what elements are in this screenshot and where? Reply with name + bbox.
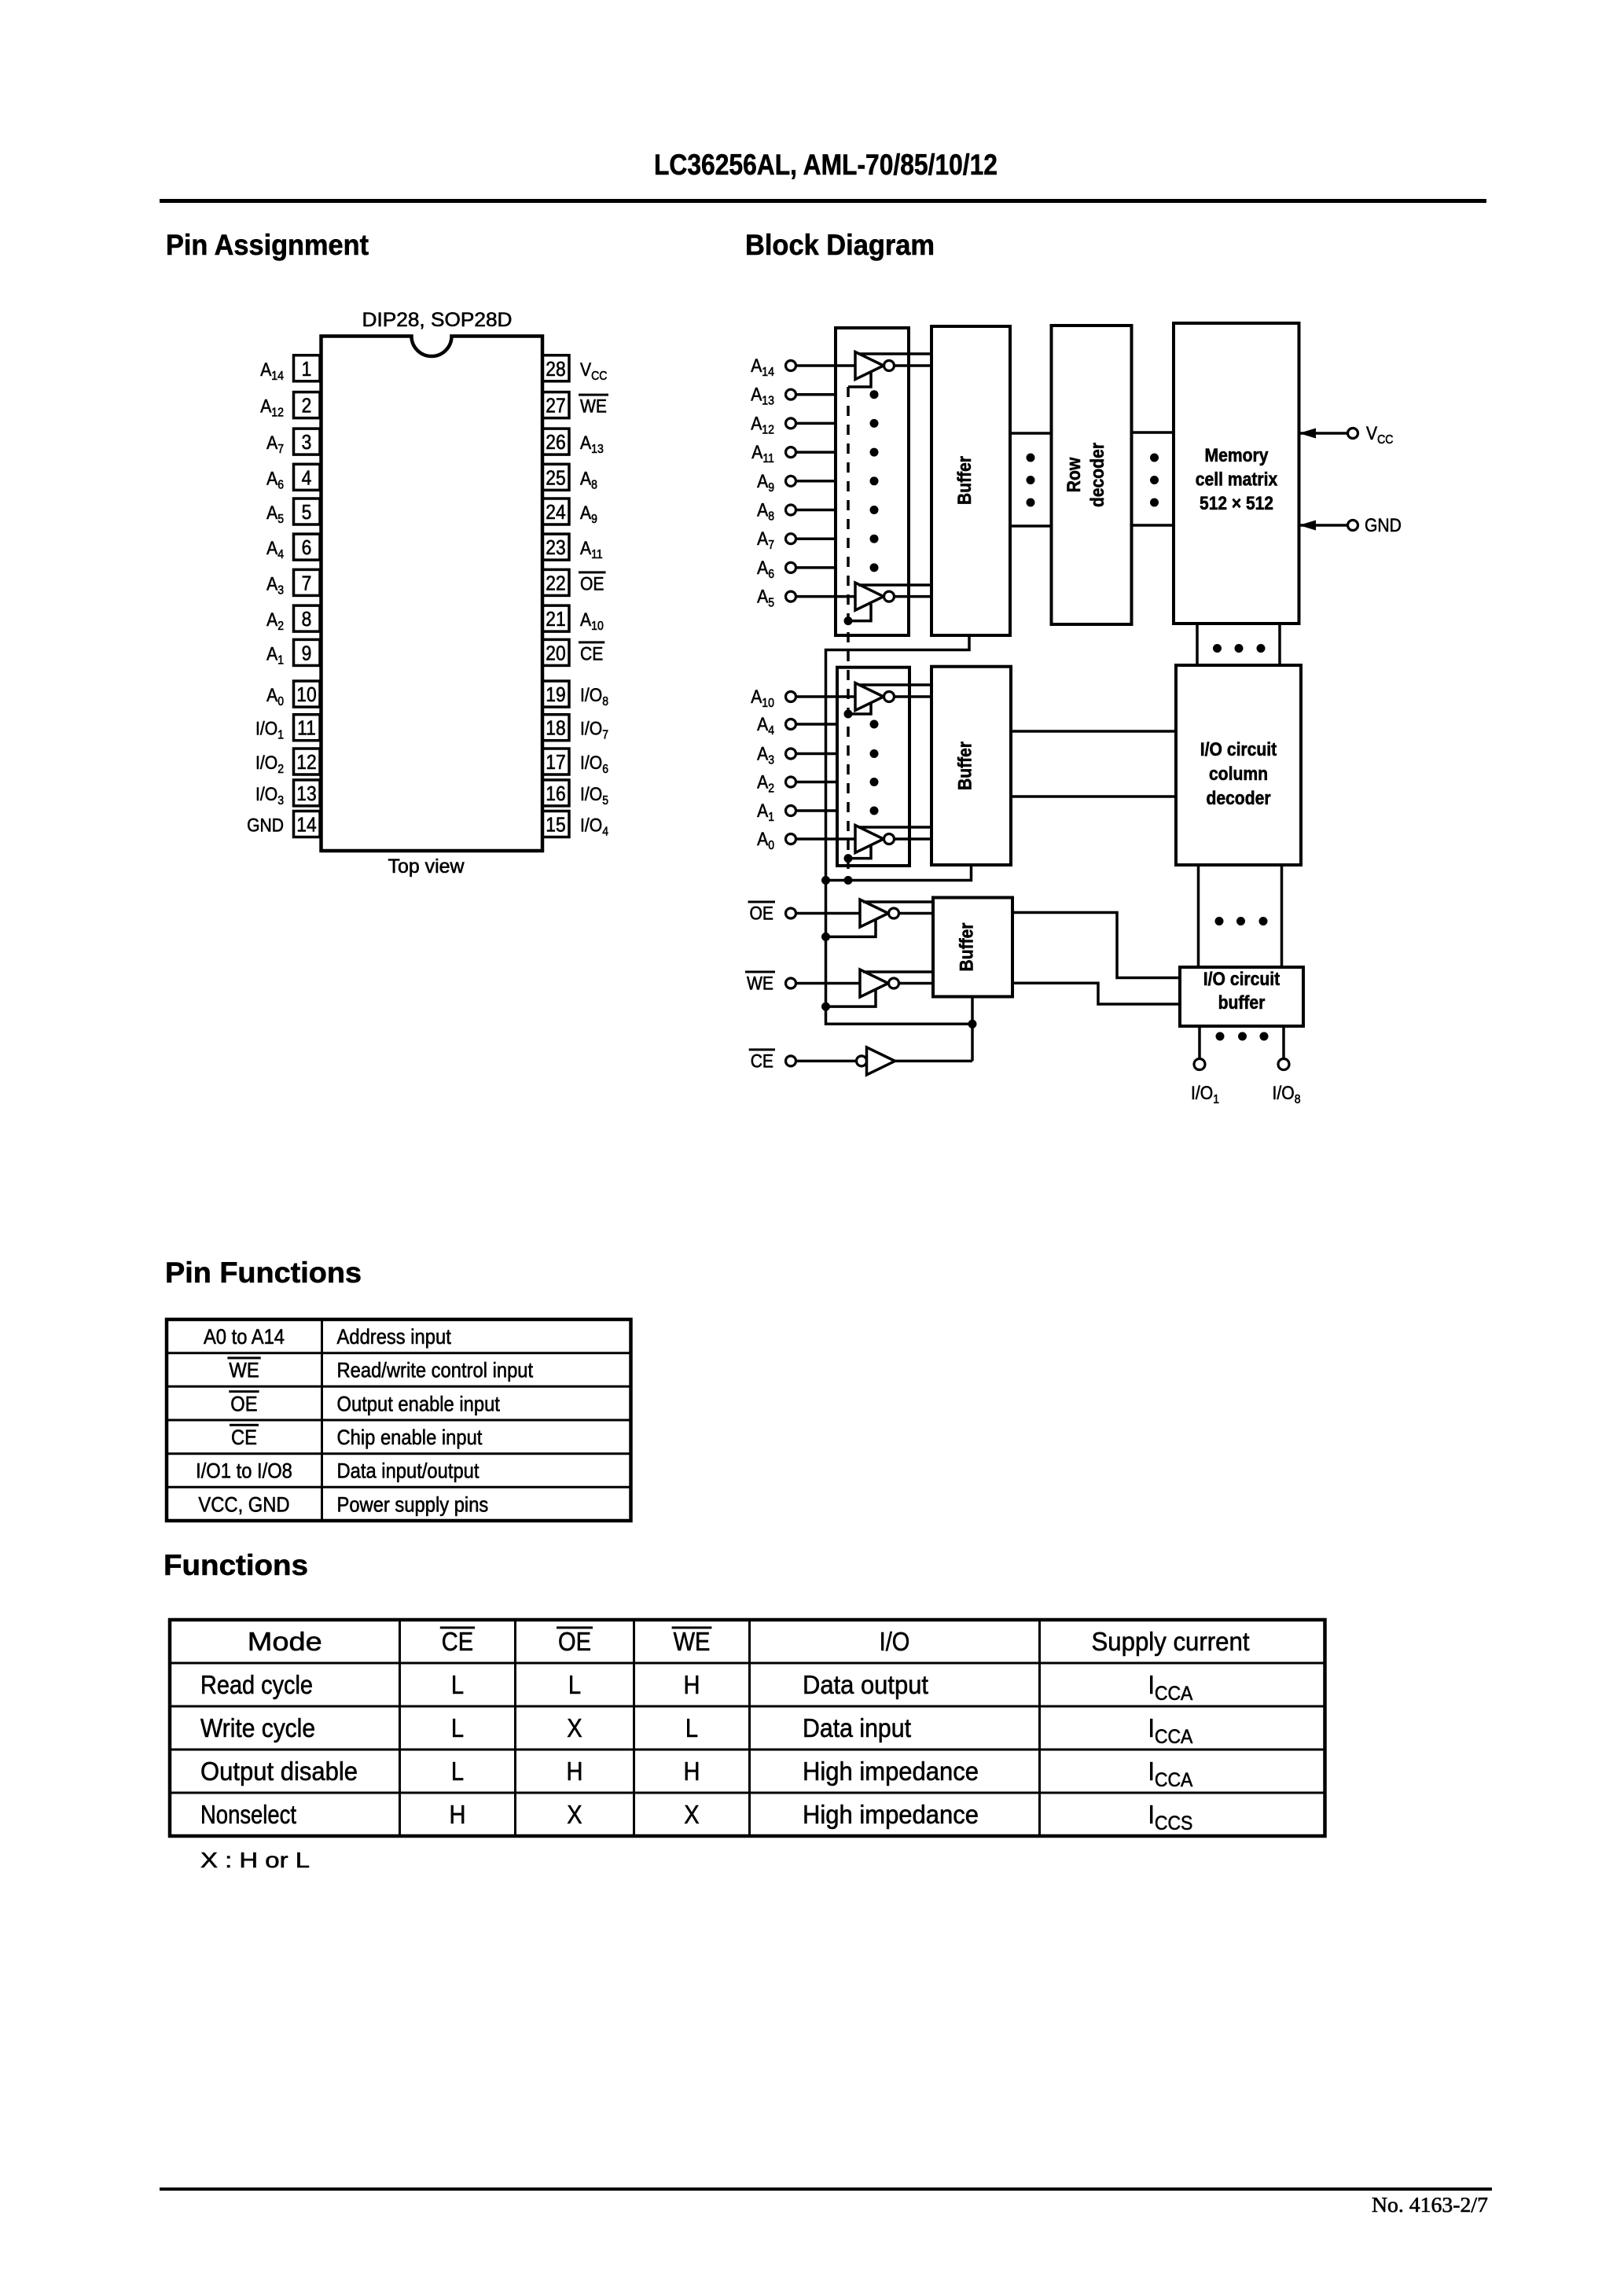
svg-text:3: 3 [768,754,774,767]
svg-text:8: 8 [602,695,608,708]
svg-text:14: 14 [296,813,316,837]
svg-text:2: 2 [277,620,284,633]
svg-text:5: 5 [277,513,284,526]
pin 25 box [542,464,569,490]
buffer amp A14 [855,352,895,380]
pin 15 box [542,811,569,837]
footer rule [160,2187,1492,2191]
svg-text:I/O1 to I/O8: I/O1 to I/O8 [196,1459,292,1483]
svg-text:7: 7 [302,571,312,594]
wire A10 input [796,695,856,698]
wire WE inverted output [899,982,934,985]
svg-text:A: A [751,686,762,708]
svg-text:26: 26 [546,430,565,454]
svg-text:13: 13 [591,443,604,456]
svg-text:CE: CE [231,1426,257,1449]
terminal I/O1 [1194,1059,1205,1070]
svg-text:I/O: I/O [255,784,277,805]
pin 20 box [542,639,569,665]
svg-text:512 × 512: 512 × 512 [1200,493,1273,514]
svg-text:A: A [751,442,762,463]
svg-text:13: 13 [762,395,774,408]
junction CE rail [968,1020,977,1028]
header rule [160,199,1486,203]
svg-text:6: 6 [768,568,774,581]
svg-text:A: A [266,432,277,454]
svg-text:OE: OE [230,1392,257,1415]
svg-text:CC: CC [1377,433,1393,447]
svg-text:10: 10 [296,683,316,706]
svg-text:decoder: decoder [1087,443,1108,507]
svg-text:I/O: I/O [255,719,277,740]
svg-text:Output enable input: Output enable input [337,1392,501,1415]
terminal A3 [786,749,796,759]
svg-text:3: 3 [277,583,284,597]
bus dots decoder-iobuffer [1215,917,1268,925]
svg-text:Address input: Address input [337,1325,452,1349]
wire A14 true output [858,352,931,355]
svg-text:Output disable: Output disable [200,1757,358,1786]
svg-text:WE: WE [747,973,773,995]
svg-text:Data input/output: Data input/output [337,1459,479,1483]
bus rowdec to matrix [1132,432,1174,525]
svg-text:9: 9 [302,641,312,664]
pin 27 box [542,392,569,418]
wire OE inverted output [899,912,934,915]
svg-text:1: 1 [277,729,284,742]
pin 1 box [294,355,321,381]
svg-text:A: A [580,609,591,631]
buffer amp CE with input bubble [857,1047,895,1075]
row decoder label [1064,443,1108,507]
svg-text:I/O: I/O [880,1627,910,1656]
junction rail-buffer2 [821,876,830,885]
junction WE feedback [821,1003,830,1011]
svg-text:4: 4 [277,548,284,561]
svg-text:CE: CE [751,1050,773,1072]
pin 4 box [294,464,321,490]
memory cell matrix label [1196,445,1278,514]
terminal A11 [786,447,796,458]
junction A0 feedback [844,854,853,863]
svg-text:18: 18 [546,716,565,740]
terminal CE [786,1056,796,1066]
svg-text:V: V [1366,423,1377,444]
terminal A9 [786,476,796,486]
bus dots matrix-decoder [1213,644,1266,653]
svg-text:A: A [757,557,768,579]
wire buffer3 bottom stub [971,997,974,1025]
wire A14 feedback [848,373,871,387]
svg-text:1: 1 [768,811,774,824]
bus matrix to column decoder [1197,624,1280,665]
pin 23 box [542,534,569,560]
terminal A0 [786,834,796,844]
bus buffer1 to row decoder [1010,433,1052,526]
svg-text:OE: OE [580,573,604,594]
I/O circuit buffer label [1203,969,1280,1014]
svg-text:13: 13 [296,782,316,805]
wire OE buffered to io buffer [1012,913,1180,978]
svg-text:cell matrix: cell matrix [1196,469,1278,491]
wire OE feedback [826,919,876,936]
svg-text:WE: WE [580,396,607,418]
svg-text:4: 4 [602,826,608,839]
GND terminal [1299,521,1358,531]
svg-text:I/O: I/O [580,815,602,837]
svg-text:I: I [1148,1800,1155,1829]
pin 11 box [294,715,321,741]
svg-text:7: 7 [277,443,284,456]
pin 16 box [542,780,569,806]
wire A5 true output [858,583,931,587]
svg-text:I/O: I/O [1273,1083,1295,1104]
svg-text:A: A [751,413,762,434]
pin functions table inner lines [167,1319,631,1521]
wire A10 inverted output [895,695,932,698]
svg-text:L: L [568,1670,581,1699]
svg-text:Functions: Functions [164,1549,308,1581]
svg-text:Buffer: Buffer [955,741,976,790]
wire WE feedback [826,989,876,1006]
svg-text:A: A [757,829,768,850]
svg-text:0: 0 [277,695,284,708]
svg-text:buffer: buffer [1218,992,1266,1014]
svg-text:Buffer: Buffer [957,923,978,972]
svg-text:A: A [266,468,277,489]
bus decoder to io buffer [1199,865,1282,967]
svg-text:I/O: I/O [255,752,277,774]
ellipsis dots group1 [870,390,879,572]
svg-text:11: 11 [762,452,774,465]
svg-text:22: 22 [546,571,565,594]
pin 13 box [294,780,321,806]
terminal A13 [786,389,796,399]
svg-text:3: 3 [302,430,312,454]
svg-text:A0 to A14: A0 to A14 [204,1325,285,1349]
svg-text:A: A [757,800,768,822]
svg-text:I: I [1148,1757,1155,1786]
svg-text:A: A [580,468,591,489]
wire A13 input [796,393,836,396]
svg-text:8: 8 [768,510,774,524]
svg-text:Block Diagram: Block Diagram [745,229,935,261]
svg-text:decoder: decoder [1206,788,1270,809]
svg-text:1: 1 [277,653,284,667]
wire A6 input [796,566,836,569]
svg-text:I: I [1148,1670,1155,1699]
wire A0 inverted output [895,837,932,841]
svg-text:LC36256AL, AML-70/85/10/12: LC36256AL, AML-70/85/10/12 [654,149,998,181]
svg-text:8: 8 [1295,1093,1301,1106]
svg-text:A: A [260,359,271,381]
svg-text:5: 5 [768,597,774,610]
pin 3 box [294,429,321,454]
wire A5 inverted output [895,595,932,598]
wire buffer2 output upper [1011,730,1176,733]
svg-text:Write cycle: Write cycle [200,1713,315,1742]
svg-text:2: 2 [277,763,284,776]
svg-text:WE: WE [229,1359,259,1382]
pin 26 box [542,429,569,454]
buffer block B3 [933,898,1012,997]
I/O circuit buffer block [1180,967,1303,1026]
svg-text:11: 11 [591,548,603,561]
svg-text:15: 15 [546,813,565,837]
svg-text:Memory: Memory [1205,445,1269,466]
svg-text:0: 0 [768,839,774,852]
wire A7 input [796,537,836,540]
I/O circuit column decoder label [1200,739,1277,809]
buffer amp WE [860,970,899,997]
svg-text:I/O: I/O [580,784,602,805]
terminal I/O8 [1278,1059,1289,1070]
pin 7 box [294,569,321,595]
pin 24 box [542,499,569,524]
pin 17 box [542,749,569,775]
svg-text:10: 10 [762,697,774,710]
terminal WE [786,978,796,988]
svg-text:H: H [450,1800,466,1829]
svg-text:I/O: I/O [580,685,602,706]
svg-text:A: A [757,587,768,608]
svg-text:I/O: I/O [1191,1083,1213,1104]
svg-text:10: 10 [591,620,604,633]
svg-text:3: 3 [277,794,284,808]
wire A8 input [796,509,836,512]
wire A10 feedback [848,704,871,714]
pin 22 box [542,569,569,595]
svg-text:A: A [751,355,762,377]
bus dots buffer1-rowdec [1027,454,1035,507]
svg-text:X: X [684,1800,699,1829]
svg-text:H: H [684,1670,700,1699]
wire A0 input [796,837,856,841]
svg-text:Pin Functions: Pin Functions [165,1257,362,1289]
svg-text:Read cycle: Read cycle [200,1670,313,1699]
svg-text:21: 21 [546,607,565,631]
svg-text:L: L [451,1670,464,1699]
svg-text:Top view: Top view [388,855,465,878]
svg-text:Pin Assignment: Pin Assignment [166,229,369,261]
svg-text:I/O: I/O [580,752,602,774]
svg-text:A: A [580,502,591,524]
I/O circuit column decoder block [1176,665,1301,865]
svg-text:7: 7 [602,729,608,742]
wire I/O1 lead [1198,1026,1201,1059]
wire rail to buffer2 bottom [826,865,972,881]
svg-text:A: A [266,643,277,664]
svg-text:Nonselect: Nonselect [200,1800,296,1829]
svg-text:Mode: Mode [248,1627,322,1656]
wire OE input [796,912,861,915]
svg-text:No. 4163-2/7: No. 4163-2/7 [1372,2193,1488,2217]
svg-text:12: 12 [271,407,284,420]
Vcc terminal [1299,429,1358,439]
pin 21 box [542,605,569,631]
pin 19 box [542,681,569,707]
svg-text:5: 5 [602,794,608,808]
svg-text:2: 2 [768,782,774,796]
svg-text:H: H [684,1757,700,1786]
terminal A5 [786,591,796,602]
wire buffer2 output lower [1011,795,1176,798]
svg-text:7: 7 [768,539,774,552]
svg-text:20: 20 [546,641,565,664]
pin 14 box [294,811,321,837]
svg-text:V: V [580,359,591,381]
svg-text:A: A [757,500,768,521]
wire WE input [796,982,861,985]
svg-text:9: 9 [591,513,597,526]
svg-text:I/O: I/O [580,719,602,740]
ellipsis dots group2 [870,720,879,815]
svg-text:A: A [266,538,277,559]
svg-text:High impedance: High impedance [803,1800,979,1829]
svg-text:OE: OE [558,1627,591,1656]
terminal OE [786,908,796,918]
svg-text:Read/write control input: Read/write control input [337,1359,534,1382]
svg-text:Supply current: Supply current [1092,1627,1250,1656]
wire A10 true output [858,683,931,686]
svg-text:A: A [757,744,768,765]
svg-text:Row: Row [1064,457,1085,492]
svg-text:19: 19 [546,683,565,706]
svg-text:A: A [751,385,762,406]
terminal A2 [786,777,796,787]
row decoder block [1052,326,1132,624]
buffer block B2 [931,667,1011,865]
junction A10 feedback [844,710,853,719]
bus dots io outputs [1216,1032,1269,1041]
svg-text:Data output: Data output [803,1670,928,1699]
svg-text:24: 24 [546,500,565,524]
pin 10 box [294,681,321,707]
svg-text:8: 8 [591,478,597,491]
pin 28 box [542,355,569,381]
svg-text:4: 4 [768,724,774,738]
junction A5 feedback [844,616,853,625]
svg-text:Power supply pins: Power supply pins [337,1492,489,1516]
wire A1 input [796,809,838,812]
svg-text:CCA: CCA [1155,1726,1193,1748]
svg-text:23: 23 [546,535,565,559]
functions table frame [170,1620,1325,1836]
svg-text:25: 25 [546,465,565,489]
svg-text:14: 14 [271,370,284,383]
buffer amp A10 [855,683,895,711]
svg-text:2: 2 [302,394,312,418]
svg-text:High impedance: High impedance [803,1757,979,1786]
svg-text:4: 4 [302,465,312,489]
svg-text:A: A [757,714,768,735]
buffer block B1 [931,326,1010,635]
svg-text:12: 12 [296,750,316,774]
svg-text:CCA: CCA [1155,1683,1193,1705]
svg-text:A: A [260,396,271,418]
terminal A12 [786,418,796,429]
svg-text:A: A [757,528,768,550]
wire A0 feedback [848,846,871,859]
svg-text:A: A [266,573,277,594]
pin functions table frame [167,1319,631,1521]
terminal A14 [786,361,796,371]
wire A14 inverted output [895,364,932,367]
svg-text:28: 28 [546,357,565,381]
svg-text:I/O circuit: I/O circuit [1203,969,1280,990]
wire A14 input [796,364,856,367]
svg-text:Data input: Data input [803,1713,911,1742]
terminal A7 [786,534,796,544]
wire A3 input [796,752,838,756]
svg-text:17: 17 [546,750,565,774]
svg-text:L: L [451,1757,464,1786]
svg-text:1: 1 [302,357,312,381]
svg-text:X : H or L: X : H or L [200,1848,310,1872]
svg-text:1: 1 [1213,1093,1219,1106]
svg-text:14: 14 [762,366,774,379]
wire buffer1 bottom to rail [826,635,973,1061]
svg-text:CCA: CCA [1155,1769,1193,1791]
wire A5 input [796,595,856,598]
svg-text:6: 6 [302,535,312,559]
svg-text:16: 16 [546,782,565,805]
svg-text:A: A [266,502,277,524]
svg-text:CC: CC [591,370,607,383]
svg-text:L: L [685,1713,698,1742]
wire WE buffered to io buffer [1012,983,1180,1004]
wire WE true output [863,970,933,973]
pin 12 box [294,749,321,775]
buffer amp OE [860,900,899,927]
svg-text:DIP28, SOP28D: DIP28, SOP28D [362,309,513,331]
svg-text:A: A [580,538,591,559]
svg-text:X: X [567,1800,582,1829]
svg-text:Chip enable input: Chip enable input [337,1426,483,1449]
functions table inner lines [170,1620,1325,1836]
pin 6 box [294,534,321,560]
svg-text:9: 9 [768,481,774,495]
pin 8 box [294,605,321,631]
wire A2 input [796,781,838,784]
svg-text:5: 5 [302,500,312,524]
svg-text:CE: CE [580,643,603,664]
svg-text:GND: GND [247,815,284,837]
wire A5 feedback [848,604,871,621]
pin 18 box [542,715,569,741]
wire A12 input [796,422,836,425]
svg-text:8: 8 [302,607,312,631]
wire I/O8 lead [1282,1026,1285,1059]
svg-text:A: A [266,685,277,706]
IC body U1 DIP28 outline with notch [321,337,543,852]
pin 2 box [294,392,321,418]
memory cell matrix block [1174,323,1299,624]
pin 5 box [294,499,321,524]
svg-text:11: 11 [297,716,316,740]
junction dashed-end [844,876,853,885]
buffer amp A0 [855,826,895,853]
terminal A8 [786,505,796,515]
pin 9 box [294,639,321,665]
wire CE output [895,1060,973,1063]
wire OE true output [863,900,933,903]
svg-text:I: I [1148,1713,1155,1742]
svg-text:I/O circuit: I/O circuit [1200,739,1277,760]
svg-text:A: A [757,471,768,492]
wire CE input [796,1060,857,1063]
terminal A1 [786,806,796,816]
